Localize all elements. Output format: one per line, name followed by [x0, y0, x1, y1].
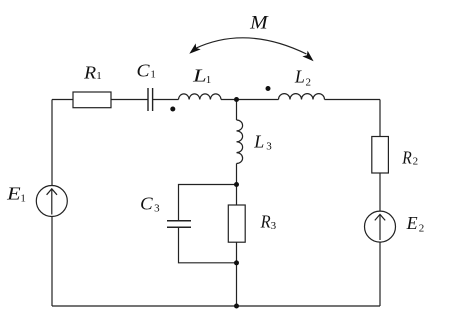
- svg-text:2: 2: [306, 77, 312, 89]
- wire C3 branch top: [179, 185, 237, 221]
- svg-text:C: C: [137, 61, 151, 81]
- wire E2 to bottom-right corner: [379, 242, 381, 306]
- svg-text:3: 3: [266, 141, 272, 153]
- wire left branch upper: [51, 100, 53, 186]
- wire bottom: [52, 305, 380, 307]
- svg-text:M: M: [249, 12, 269, 33]
- polarity dot of L2: [266, 86, 271, 91]
- source E2: [365, 211, 396, 242]
- resistor R2: [372, 137, 389, 174]
- svg-text:R: R: [83, 62, 96, 82]
- wire C1 to L1: [153, 99, 179, 101]
- junction node B (L3/R3/C3 top): [234, 182, 239, 187]
- mutual inductance arc M: [195, 38, 307, 54]
- wire L3 to node B: [236, 164, 238, 206]
- svg-text:L: L: [192, 66, 207, 86]
- svg-text:L: L: [294, 67, 305, 87]
- arrowhead right of M arc: [302, 51, 316, 65]
- source E1: [36, 186, 67, 217]
- wire L2 to top-right corner: [325, 99, 381, 101]
- wire top-left horizontal (node between left corner and R1): [52, 99, 73, 101]
- inductor L2: [279, 94, 325, 100]
- junction node D (bottom wire): [234, 304, 239, 309]
- inductor L3: [237, 120, 243, 164]
- svg-text:1: 1: [206, 74, 212, 86]
- wire node A down to L3: [236, 100, 238, 121]
- junction node C (R3/C3 bottom): [234, 260, 239, 265]
- resistor R3: [228, 205, 245, 242]
- wire R3 to bottom node: [236, 242, 238, 306]
- svg-text:2: 2: [413, 155, 419, 167]
- svg-text:3: 3: [154, 202, 160, 214]
- wire L1 to L2 through node A: [221, 99, 279, 101]
- svg-text:C: C: [140, 193, 154, 213]
- arrowhead left of M arc: [187, 43, 201, 56]
- svg-text:R: R: [401, 148, 411, 168]
- polarity dot of L1: [170, 107, 175, 112]
- capacitor C3: [167, 221, 191, 228]
- svg-text:2: 2: [419, 223, 425, 235]
- svg-text:R: R: [260, 212, 271, 232]
- svg-text:E: E: [6, 184, 21, 204]
- svg-text:L: L: [253, 132, 264, 152]
- wire left branch lower: [51, 217, 53, 306]
- svg-text:3: 3: [271, 220, 277, 232]
- wire C3 branch bottom: [179, 227, 237, 262]
- inductor L1: [179, 94, 222, 100]
- wire R1 to C1: [111, 99, 148, 101]
- wire right branch upper: [379, 100, 381, 137]
- svg-text:1: 1: [96, 70, 102, 82]
- svg-text:1: 1: [20, 193, 26, 205]
- svg-text:1: 1: [150, 69, 156, 81]
- wire R2 to E2: [379, 173, 381, 211]
- junction node A (top of L3): [234, 97, 239, 102]
- svg-text:E: E: [406, 213, 418, 233]
- capacitor C1: [148, 88, 153, 111]
- resistor R1: [73, 92, 111, 108]
